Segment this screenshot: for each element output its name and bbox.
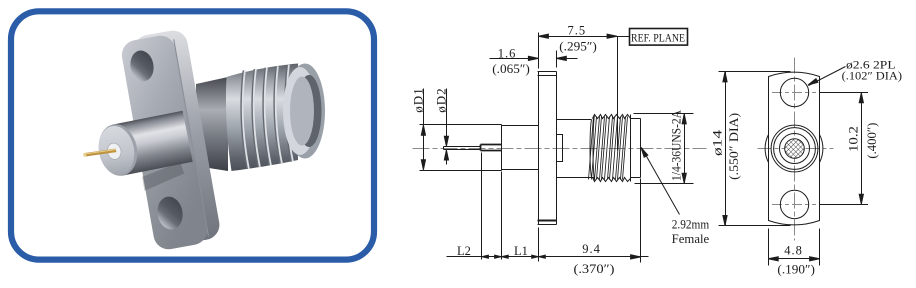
dimension dia14 [719,72,791,226]
3D plate lower shading [139,146,209,252]
flange side view [538,72,557,225]
thread dimension 1/4-36UNS-2A [634,114,694,184]
flange outline front view [769,72,820,225]
svg-text:9.4: 9.4 [582,242,601,256]
3D flange plate side edge [132,28,222,246]
3D gold pin [84,147,116,158]
svg-text:(.400″): (.400″) [865,123,879,159]
dimension D2 [444,89,448,165]
interface outer circle [771,125,818,172]
dimension text group [410,23,902,276]
blue rounded frame [11,11,374,259]
svg-text:10.2: 10.2 [846,126,860,152]
bottom hole centerline [772,204,816,206]
svg-text:2.92mm: 2.92mm [672,218,710,232]
dimension 4.8 [768,229,819,266]
svg-text:1.6: 1.6 [498,46,517,60]
bottom mounting hole [780,190,808,218]
thread flank lines [589,117,628,180]
interface second circle [774,128,816,170]
front view group [719,58,869,266]
svg-text:(.190″): (.190″) [777,263,815,277]
front view horizontal centerline [758,148,834,150]
3D bottom mounting hole [155,195,185,232]
leader 2.92mm Female [639,146,679,214]
3D cylinder shadow on plate [141,162,186,191]
svg-text:Female: Female [672,232,710,246]
svg-text:L2: L2 [457,244,471,258]
centerline side view [413,148,707,150]
side view group [413,29,707,263]
dimension 7.5 [538,33,629,151]
leader dia2.6 [807,67,845,87]
thread bottom zigzag [593,178,631,182]
connector front face [631,119,641,178]
svg-text:(.295″): (.295″) [559,40,597,54]
svg-text:(.065″): (.065″) [492,62,530,76]
svg-text:ø14: ø14 [711,129,725,156]
3D flange plate front face [119,33,210,251]
body D1 section [420,125,502,171]
flange bottom bold line [538,220,557,222]
REF. PLANE box [630,29,688,46]
interface inner circle [780,134,810,164]
svg-text:øD1: øD1 [410,87,425,112]
bottom dimension line L2 L1 9.4 [447,153,649,263]
svg-text:L1: L1 [514,244,528,258]
3D front cylinder [79,111,193,183]
svg-text:øD2: øD2 [433,87,448,112]
left side arc [765,135,768,163]
boss on flange face [557,135,563,162]
svg-text:REF. PLANE: REF. PLANE [631,31,685,45]
3D picture group [79,28,325,252]
dimension D1 [421,89,425,170]
center pin thick segment [481,145,502,151]
3D nut end cap shading [285,64,325,159]
svg-text:4.8: 4.8 [784,244,803,258]
3D rear small cylinder [196,77,228,171]
svg-text:(.102″ DIA): (.102″ DIA) [842,69,902,83]
front view vertical centerline [794,58,796,241]
thread top zigzag [593,115,631,119]
3D dielectric face [106,142,123,161]
3D top mounting hole [128,49,156,84]
thread end face [630,115,632,182]
dimension 10.2 [820,93,868,205]
body block [502,125,539,171]
center pin thin segment [444,147,481,150]
3D front cap [94,121,141,179]
svg-text:1/4-36UNS-2A: 1/4-36UNS-2A [670,110,684,181]
thread run-out curves [590,115,595,182]
3D coupling nut body [226,64,298,172]
svg-text:(.550″ DIA): (.550″ DIA) [727,113,741,180]
top hole centerline [772,92,816,94]
3D plate face-edge crease [174,39,209,236]
svg-text:7.5: 7.5 [567,23,586,37]
right side arc [820,135,823,163]
top mounting hole [780,78,808,106]
dimension 1.6 [490,51,578,68]
rear cylinder between flange and thread [557,120,595,178]
female contact hatched circle [785,139,805,159]
svg-text:(.370″): (.370″) [574,262,615,276]
3D nut grooves [241,65,293,169]
